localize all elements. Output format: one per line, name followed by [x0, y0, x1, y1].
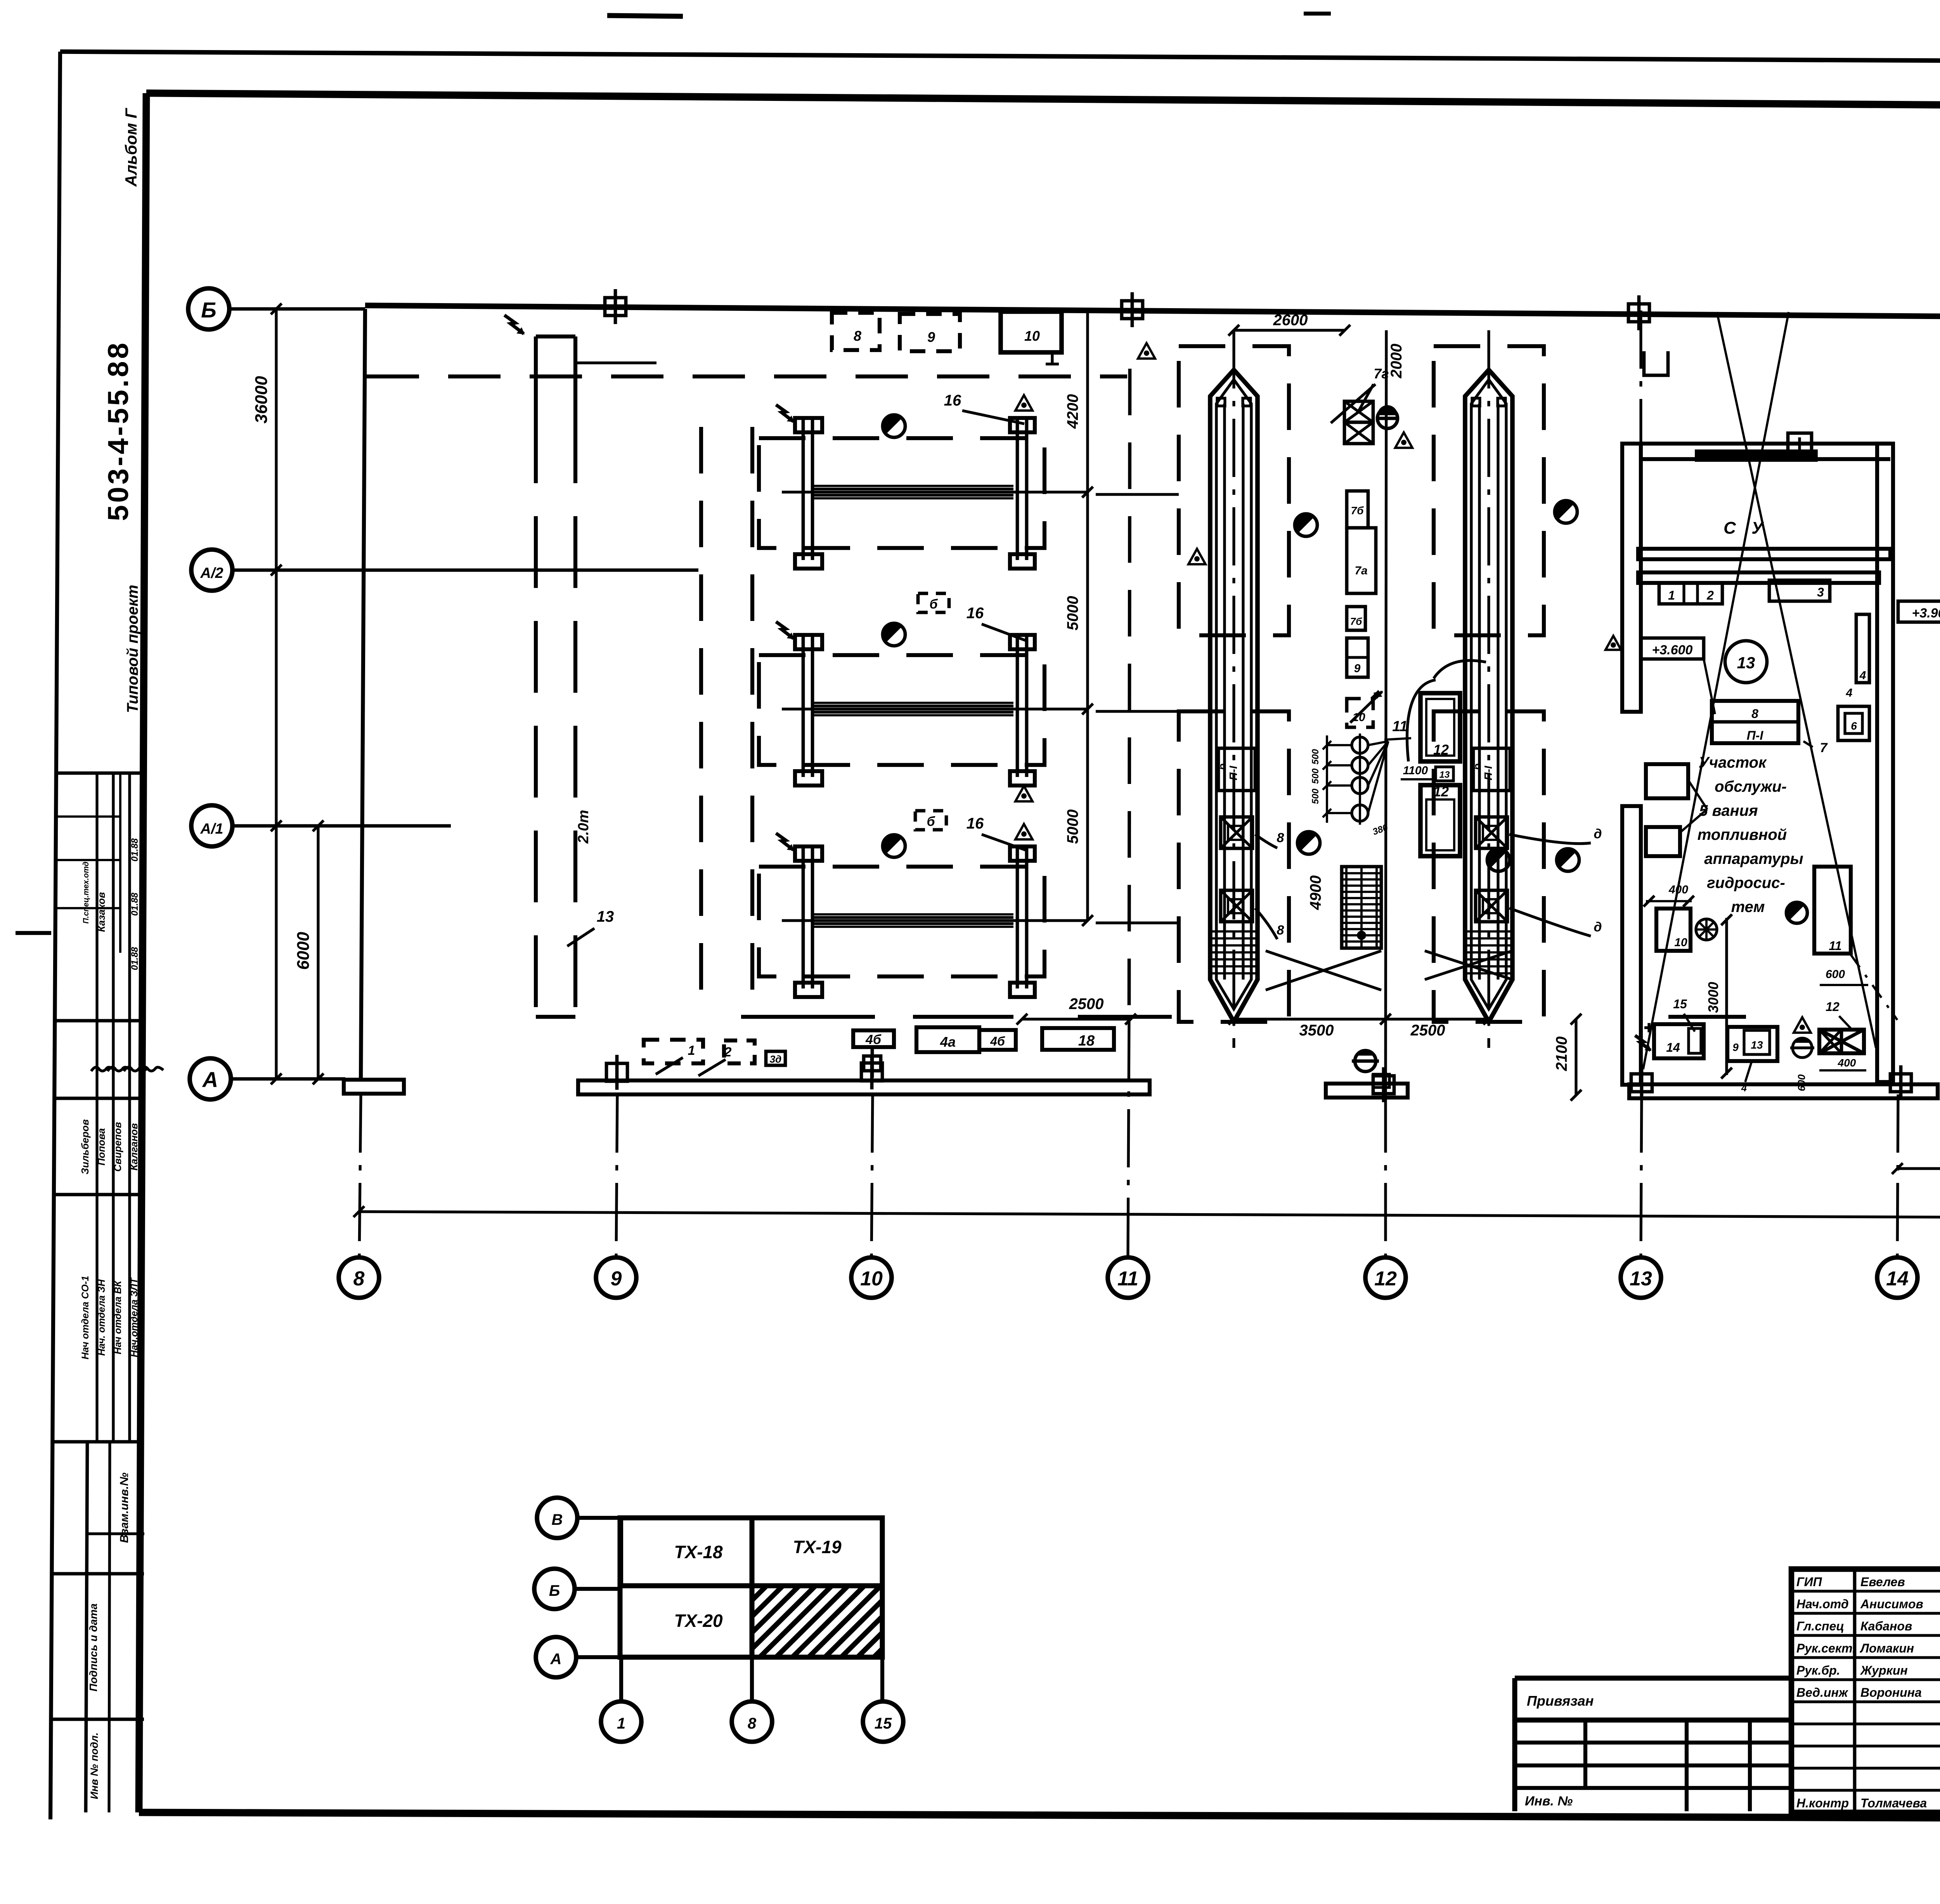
- equipment rect 7b lower: [1347, 607, 1365, 630]
- svg-text:13: 13: [1751, 1039, 1763, 1051]
- svg-text:ТХ-20: ТХ-20: [674, 1611, 723, 1631]
- svg-text:Инв № подл.: Инв № подл.: [88, 1732, 100, 1799]
- svg-text:Привязан: Привязан: [1527, 1693, 1594, 1709]
- top exterior wall on axis B: [365, 305, 1940, 318]
- svg-text:10: 10: [860, 1268, 883, 1290]
- svg-text:Воронина: Воронина: [1860, 1686, 1922, 1699]
- svg-text:6000: 6000: [294, 932, 313, 970]
- vehicle lift at x=3837 axis dash-dot: [1487, 330, 1490, 1048]
- svg-text:д: д: [1594, 920, 1602, 935]
- svg-text:Взам.инв.№: Взам.инв.№: [118, 1472, 131, 1543]
- vehicle lift at x=3837 grate hatch: [1467, 930, 1511, 933]
- equipment box 3d: [766, 1051, 785, 1065]
- svg-text:1: 1: [688, 1043, 695, 1058]
- equipment box 10 with north arrow: [1347, 699, 1373, 727]
- svg-text:Б: Б: [201, 298, 217, 322]
- bench 2 dashed outline: [759, 655, 1044, 765]
- bench 3 axis continuation to lift zone: [1096, 921, 1179, 924]
- svg-text:3: 3: [1817, 585, 1824, 599]
- svg-text:13: 13: [1630, 1268, 1652, 1290]
- bench 2 axis continuation to lift zone: [1096, 710, 1179, 713]
- svg-text:503-4-55.88: 503-4-55.88: [102, 340, 134, 521]
- equipment rect 7b upper: [1347, 491, 1368, 528]
- svg-text:Участок: Участок: [1699, 754, 1767, 771]
- vehicle lift at x=3837 top detail squares: [1472, 398, 1480, 406]
- svg-text:Анисимов: Анисимов: [1860, 1597, 1923, 1611]
- equipment box 4a: [916, 1027, 979, 1052]
- title block left rows: [1791, 1590, 1940, 1592]
- svg-text:П.спец.тех.отд: П.спец.тех.отд: [82, 862, 90, 924]
- svg-text:А: А: [202, 1067, 218, 1092]
- svg-text:7б: 7б: [1350, 616, 1362, 627]
- svg-text:13: 13: [1439, 770, 1450, 780]
- privyazan table grid: [1515, 1741, 1791, 1744]
- key plan table divider horizontal: [620, 1583, 882, 1588]
- svg-text:гидросис-: гидросис-: [1707, 874, 1785, 891]
- svg-text:6: 6: [1851, 720, 1857, 732]
- vehicle lift at x=3180 inner outline: [1216, 380, 1251, 1009]
- dimension 3500 and 2500 under lifts: [1234, 1018, 1489, 1020]
- svg-text:2: 2: [1706, 588, 1714, 602]
- svg-text:Инв. №: Инв. №: [1525, 1794, 1573, 1809]
- equipment dashed box 2: [724, 1040, 755, 1063]
- svg-text:П-I: П-I: [1747, 728, 1764, 742]
- vehicle lift at x=3180 crossed box upper: [1221, 817, 1252, 848]
- svg-text:Гл.спец: Гл.спец: [1796, 1619, 1844, 1633]
- bench 1 axis continuation to lift zone: [1096, 493, 1179, 496]
- vehicle lift at x=3180 axis dash-dot: [1232, 330, 1235, 1048]
- drawing frame bottom line: [139, 1812, 1940, 1820]
- vehicle lift at x=3837 crossed box upper: [1476, 817, 1507, 848]
- equipment box 4b right: [979, 1030, 1016, 1050]
- room second wall: [1638, 572, 1879, 583]
- ventilation symbols central zone: [1295, 514, 1317, 536]
- room box 9-13: [1727, 1027, 1777, 1061]
- grid axis B line: [229, 307, 365, 311]
- SU room bottom wall: [1638, 549, 1890, 559]
- svg-text:2500: 2500: [1410, 1022, 1445, 1039]
- svg-text:Толмачева: Толмачева: [1860, 1796, 1927, 1810]
- triangle right of central boxes: [1188, 549, 1206, 564]
- svg-text:8: 8: [1751, 707, 1758, 721]
- dimension 2600 top of lifts: [1234, 329, 1345, 331]
- cross braces below stairs: [1266, 951, 1381, 990]
- bench 1 dashed outline: [759, 438, 1044, 548]
- room big diagonal lines: [1717, 312, 1876, 1048]
- svg-text:тем: тем: [1731, 898, 1765, 916]
- svg-text:7б: 7б: [1351, 505, 1364, 517]
- svg-text:б: б: [1471, 763, 1483, 770]
- svg-text:600: 600: [1826, 968, 1845, 981]
- svg-text:7а: 7а: [1355, 564, 1367, 577]
- bench 2 ventilation symbol: [883, 623, 905, 646]
- svg-text:Журкин: Журкин: [1860, 1663, 1908, 1677]
- stray scan mark top center: [607, 16, 683, 16]
- svg-text:600: 600: [1796, 1074, 1807, 1091]
- grid column 8 wall line: [361, 309, 365, 1079]
- interior dashed line below top wall: [367, 375, 1127, 378]
- room triangle and benchmark: [1794, 1017, 1811, 1033]
- svg-text:А/2: А/2: [200, 565, 223, 581]
- svg-text:4а: 4а: [940, 1034, 956, 1050]
- room lightning bottom left: [1635, 1035, 1651, 1050]
- svg-text:7г: 7г: [1374, 366, 1389, 381]
- room right wall: [1877, 444, 1893, 1082]
- grid column 12 line: [1386, 330, 1386, 1094]
- bench 3 ventilation symbol: [883, 835, 905, 857]
- svg-text:Рук.сект.: Рук.сект.: [1796, 1641, 1856, 1655]
- svg-text:Нач отдела СО-1: Нач отдела СО-1: [80, 1276, 91, 1360]
- svg-text:500: 500: [1310, 768, 1321, 784]
- svg-text:Калганов: Калганов: [128, 1123, 140, 1171]
- svg-text:+3.600: +3.600: [1652, 643, 1693, 657]
- grid column 13 dash-dot upper: [1639, 310, 1642, 444]
- four circles item 11: [1359, 734, 1361, 825]
- stray scan mark top center 2: [1304, 12, 1331, 16]
- dimension 2100 vertical: [1575, 1019, 1577, 1095]
- paper outer border left edge: [50, 52, 60, 1819]
- svg-text:Казаков: Казаков: [95, 892, 107, 932]
- key plan table divider vertical: [750, 1518, 755, 1657]
- svg-text:10: 10: [1024, 328, 1040, 344]
- vehicle lift at x=3837 platform box P-I: [1473, 748, 1510, 791]
- room rect 11: [1814, 867, 1851, 954]
- svg-text:3000: 3000: [1705, 982, 1721, 1013]
- room crossed box 12: [1819, 1030, 1864, 1053]
- dimension 6000 vertical line: [317, 826, 319, 1079]
- svg-text:Свирепов: Свирепов: [112, 1122, 123, 1172]
- key plan circle A: [536, 1637, 576, 1677]
- central staircase: [1342, 867, 1381, 948]
- room box 10: [1656, 909, 1691, 951]
- svg-text:1: 1: [617, 1715, 625, 1732]
- bench 1 right shaft: [1016, 418, 1019, 560]
- vehicle lift at x=3837 rails: [1478, 404, 1481, 980]
- triangle left of SU room: [1606, 636, 1621, 650]
- svg-text:13: 13: [1737, 654, 1755, 672]
- key plan circle B: [534, 1569, 575, 1609]
- bench 1 triangle: [1015, 395, 1032, 411]
- grid column 8 dash-dot tail: [359, 1094, 361, 1257]
- bench 3 dashed outline: [759, 867, 1044, 976]
- bottom exterior wall strips on axis A: [344, 1080, 404, 1094]
- svg-text:Попова: Попова: [95, 1128, 107, 1165]
- svg-text:Ломакин: Ломакин: [1860, 1641, 1914, 1655]
- key plan column stubs: [619, 1657, 623, 1701]
- svg-text:4б: 4б: [865, 1032, 882, 1047]
- equipment dashed box 1: [644, 1040, 703, 1063]
- svg-text:01.88: 01.88: [130, 947, 140, 970]
- dimension 3000 vertical in room: [1725, 918, 1728, 1075]
- central triangle symbol: [1395, 432, 1412, 448]
- svg-text:36000: 36000: [252, 376, 271, 423]
- grid bottom dimension line: [359, 1212, 1940, 1218]
- grid column 10 dash-dot line: [871, 1094, 873, 1257]
- box 10 below top wall: [1001, 312, 1062, 352]
- bar lightning symbol: [504, 315, 524, 334]
- svg-text:б: б: [927, 814, 935, 829]
- svg-text:б: б: [1216, 763, 1228, 770]
- svg-text:8: 8: [353, 1268, 365, 1290]
- dimension 2500 bottom of benches: [1022, 1018, 1131, 1020]
- vertical partition bar: [536, 335, 575, 338]
- svg-text:ТХ-19: ТХ-19: [793, 1537, 842, 1557]
- svg-text:аппаратуры: аппаратуры: [1704, 850, 1803, 867]
- svg-text:ГИП: ГИП: [1796, 1575, 1822, 1589]
- vehicle lift at x=3837 outer outline: [1465, 370, 1512, 1022]
- vertical dimension line 4200/5000/5000: [1086, 309, 1089, 921]
- svg-text:обслужи-: обслужи-: [1715, 778, 1787, 795]
- svg-text:4: 4: [1859, 669, 1866, 682]
- bottom wall column symbols: [606, 1063, 627, 1081]
- svg-text:2100: 2100: [1553, 1037, 1570, 1072]
- svg-text:9: 9: [1354, 662, 1361, 675]
- short line from bar to right: [575, 361, 656, 364]
- svg-text:3500: 3500: [1299, 1022, 1334, 1039]
- svg-text:Евелев: Евелев: [1860, 1575, 1905, 1589]
- svg-text:8: 8: [854, 328, 861, 344]
- svg-text:5000: 5000: [1064, 810, 1081, 844]
- room box 6: [1838, 706, 1869, 740]
- equipment box 18: [1042, 1028, 1114, 1050]
- equipment box 4b left: [853, 1030, 894, 1047]
- elevation label +3.600: [1641, 638, 1704, 659]
- svg-text:1: 1: [1668, 588, 1675, 602]
- svg-text:Кабанов: Кабанов: [1860, 1619, 1912, 1633]
- svg-text:12: 12: [1826, 1000, 1840, 1014]
- svg-text:16: 16: [967, 815, 984, 832]
- svg-text:2: 2: [724, 1045, 732, 1060]
- grid column 13 dash-dot lower: [1641, 1094, 1642, 1257]
- SU room shelf bar: [1696, 451, 1817, 461]
- room box 14 with insert 15: [1654, 1024, 1704, 1058]
- dashed box 9 below top wall: [900, 314, 960, 351]
- bench 1 lightning: [776, 405, 793, 421]
- svg-text:11: 11: [1117, 1268, 1138, 1290]
- dashed box 8 below top wall: [832, 313, 880, 350]
- svg-text:400: 400: [1838, 1057, 1856, 1069]
- bench 3 axis shaft lines: [782, 919, 1088, 922]
- vehicle lift at x=3180 rails: [1223, 404, 1226, 980]
- svg-text:13: 13: [597, 908, 614, 925]
- svg-text:В: В: [552, 1511, 563, 1528]
- svg-text:4200: 4200: [1064, 394, 1081, 429]
- svg-text:Рук.бр.: Рук.бр.: [1796, 1663, 1840, 1677]
- svg-text:4б: 4б: [990, 1034, 1005, 1048]
- svg-text:9: 9: [927, 329, 935, 345]
- bench 2 left shaft: [802, 635, 805, 777]
- svg-text:Б: Б: [549, 1582, 560, 1599]
- svg-text:15: 15: [875, 1715, 892, 1732]
- svg-text:Нач.отд: Нач.отд: [1796, 1597, 1849, 1611]
- svg-text:9: 9: [1732, 1041, 1739, 1053]
- vehicle lift at x=3180 platform box P-I: [1218, 748, 1255, 791]
- bench 2 right shaft: [1016, 635, 1019, 777]
- svg-text:ТХ-18: ТХ-18: [674, 1542, 723, 1562]
- svg-text:9: 9: [611, 1268, 622, 1290]
- grid axis A/2 line: [232, 569, 698, 572]
- lift zone dashed boundary rects: [1179, 346, 1289, 635]
- room box 3: [1769, 580, 1830, 601]
- privyazan table: [1515, 1676, 1791, 1681]
- svg-text:3д: 3д: [770, 1053, 782, 1065]
- vehicle lift at x=3837 inner outline: [1471, 380, 1506, 1009]
- svg-text:Зильберов: Зильберов: [79, 1119, 91, 1175]
- svg-text:500: 500: [1310, 749, 1321, 765]
- svg-text:11: 11: [1829, 939, 1841, 953]
- left margin signature table lines: [56, 772, 144, 775]
- svg-text:А: А: [550, 1651, 562, 1668]
- bench 3 right shaft: [1016, 847, 1019, 988]
- boxed label b bench2: [918, 593, 949, 612]
- grid column 14 dash-dot lower: [1897, 1094, 1898, 1257]
- vehicle lift at x=3180 crossed box lower: [1221, 890, 1252, 922]
- bench 1 axis shaft lines: [782, 491, 1088, 493]
- svg-text:Типовой проект: Типовой проект: [124, 585, 141, 713]
- svg-text:18: 18: [1078, 1033, 1095, 1049]
- equipment rect 7a: [1347, 528, 1376, 593]
- grid axis A line: [231, 1077, 345, 1081]
- vehicle lift at x=3180 grate hatch: [1212, 930, 1256, 933]
- svg-text:д: д: [1594, 827, 1602, 841]
- svg-text:4900: 4900: [1307, 876, 1324, 910]
- bench 3 lightning: [776, 833, 793, 850]
- grid axis circle A: [190, 1058, 231, 1099]
- dimension 36000 vertical line: [275, 309, 277, 1079]
- dimension 6000 bottom: [1897, 1167, 1940, 1170]
- svg-text:+3.900: +3.900: [1912, 606, 1940, 621]
- flex pipe curve: [1434, 661, 1486, 678]
- svg-text:4: 4: [1846, 687, 1853, 699]
- grid axis circle B: [188, 288, 229, 329]
- grid column 9 dash-dot line: [616, 1094, 617, 1257]
- svg-text:Нач отдела ВК: Нач отдела ВК: [113, 1280, 123, 1354]
- svg-text:1100: 1100: [1403, 764, 1428, 777]
- svg-text:2.0т: 2.0т: [575, 810, 592, 844]
- svg-text:Н.контр: Н.контр: [1796, 1796, 1849, 1810]
- svg-text:15: 15: [1673, 997, 1687, 1011]
- grid axis circle A/1: [191, 805, 232, 846]
- room circle with cross: [1696, 919, 1717, 940]
- bench 1 left shaft: [802, 418, 805, 560]
- grid circle 13 inside plan: [1725, 641, 1767, 683]
- room two rects item 5: [1646, 764, 1688, 798]
- svg-text:5000: 5000: [1064, 596, 1081, 631]
- svg-text:7: 7: [1820, 740, 1828, 755]
- title block left column verticals: [1853, 1569, 1857, 1812]
- elevation label +3.900 with X leaders: [1898, 601, 1940, 622]
- SU room top wall: [1641, 442, 1890, 446]
- top wall column symbols: [605, 298, 626, 316]
- bench 3 triangles: [1015, 786, 1032, 801]
- grid axis circle A/2: [191, 550, 232, 591]
- drawing frame top line: [146, 93, 1940, 109]
- boxed label b bench3: [915, 811, 946, 830]
- key plan bottom circles: [601, 1701, 641, 1742]
- bench 1 ventilation symbol: [883, 415, 905, 437]
- svg-text:2600: 2600: [1273, 312, 1308, 329]
- svg-text:01.88: 01.88: [130, 892, 140, 916]
- svg-text:4: 4: [1741, 1082, 1747, 1094]
- svg-text:12: 12: [1433, 742, 1449, 758]
- svg-text:10: 10: [1674, 936, 1687, 949]
- cross box on top wall: [1788, 433, 1812, 454]
- vehicle lift at x=3837 crossed box lower: [1476, 890, 1507, 922]
- svg-text:12: 12: [1374, 1268, 1397, 1290]
- svg-text:Нач.отдела ЗЛТ: Нач.отдела ЗЛТ: [129, 1277, 140, 1357]
- benchmark circle symbol bottom center: [1355, 1051, 1376, 1072]
- svg-text:А/1: А/1: [200, 821, 223, 837]
- central crossed boxes stack: [1344, 401, 1373, 422]
- svg-text:16: 16: [944, 392, 961, 409]
- svg-text:топливной: топливной: [1697, 826, 1787, 843]
- svg-text:12: 12: [1433, 784, 1449, 799]
- key plan circle V: [537, 1498, 577, 1538]
- key plan leader lines: [577, 1516, 620, 1520]
- room boxes 1 and 2: [1659, 583, 1722, 604]
- central circle valve symbol: [1377, 408, 1398, 428]
- room left wall lower: [1622, 806, 1641, 1085]
- svg-text:2500: 2500: [1069, 995, 1104, 1013]
- svg-text:8: 8: [748, 1715, 757, 1732]
- svg-text:14: 14: [1666, 1040, 1680, 1054]
- title block outer rect: [1791, 1569, 1940, 1812]
- bench 2 lightning: [776, 622, 793, 638]
- drawing frame left line: [139, 93, 146, 1812]
- left margin signature squiggles: [91, 1067, 114, 1071]
- room box 8 / P-I: [1712, 701, 1798, 743]
- equipment boxes 12: [1420, 693, 1460, 761]
- vehicle lift at x=3180 outer outline: [1210, 370, 1258, 1022]
- svg-text:8: 8: [1277, 831, 1284, 845]
- svg-text:5 вания: 5 вания: [1699, 802, 1758, 819]
- vehicle lift at x=3180 top detail squares: [1217, 398, 1225, 406]
- bench 2 axis shaft lines: [782, 707, 1088, 710]
- svg-text:500: 500: [1310, 788, 1321, 804]
- svg-text:8: 8: [1277, 923, 1284, 938]
- key plan hatched cell: [687, 1576, 988, 1665]
- svg-text:2000: 2000: [1388, 344, 1405, 379]
- interior dashed wall line above bottom wall: [741, 1015, 875, 1019]
- paper outer border top edge: [60, 52, 1940, 64]
- svg-text:б: б: [929, 597, 938, 612]
- grid axis A/1 line: [232, 824, 451, 828]
- triangle top-left of lift zone: [1138, 343, 1155, 359]
- svg-text:11: 11: [1392, 718, 1407, 735]
- grid column 11 dashed boundary in plan: [1129, 369, 1130, 1019]
- svg-text:16: 16: [967, 605, 984, 622]
- fold mark on left paper edge: [16, 931, 51, 935]
- svg-text:01.88: 01.88: [130, 838, 140, 862]
- bench 3 left shaft: [802, 847, 805, 988]
- svg-text:Вед.инж: Вед.инж: [1796, 1686, 1848, 1699]
- svg-text:Подпись и дата: Подпись и дата: [87, 1604, 99, 1692]
- svg-text:14: 14: [1886, 1268, 1909, 1290]
- equipment box 9: [1347, 638, 1368, 677]
- room tall rect 4: [1856, 614, 1869, 683]
- grid bottom circles 8-15: [339, 1257, 379, 1298]
- room left wall upper: [1622, 444, 1641, 712]
- svg-text:Нач. отдела ЗН: Нач. отдела ЗН: [96, 1279, 107, 1356]
- svg-text:Альбом Г: Альбом Г: [122, 108, 140, 187]
- gate opening mark below top wall at grid 13: [1644, 351, 1668, 375]
- dashed zone verticals left of benches: [699, 427, 703, 1017]
- key plan table outline: [620, 1518, 882, 1657]
- grid column 11 dash-dot line: [1128, 1021, 1129, 1257]
